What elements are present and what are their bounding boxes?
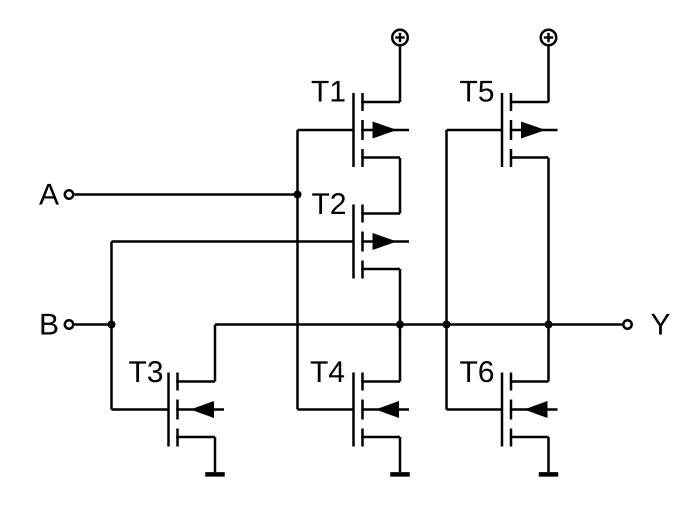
wire: T5 source down to output node — [547, 158, 550, 325]
wire: gate rail to T6 gate — [447, 408, 503, 411]
wire: B rail to T3 gate — [112, 408, 169, 411]
power supply terminal (+) — [541, 30, 557, 46]
label B — [41, 314, 57, 335]
junction: node B — [108, 321, 116, 329]
wire: B rail to T2 gate — [112, 240, 355, 243]
wire: T1 source to T2 drain — [399, 158, 402, 214]
label Y — [651, 314, 670, 335]
transistor T2 (p-type enhancement, bulk arrow pointing right) — [354, 205, 410, 279]
wire: input B to node B — [74, 323, 111, 326]
label T2 — [312, 193, 345, 214]
wire: T4 drain up to node N — [399, 325, 402, 382]
junction: node N at T5/T6 drains — [545, 321, 553, 329]
label A — [39, 184, 59, 205]
ground — [390, 437, 410, 474]
wire: input A to node A — [74, 193, 297, 196]
wire: node B rail (T2 gate down to T3 gate) — [110, 242, 113, 410]
label T1 — [312, 81, 345, 102]
transistor T3 (n-type enhancement, bulk arrow pointing left) — [169, 373, 225, 447]
input terminal A — [65, 190, 73, 198]
power supply terminal (+) — [392, 30, 408, 46]
label T3 — [129, 361, 162, 382]
label T4 — [311, 361, 344, 382]
wire: gate rail to T5 gate — [447, 129, 503, 132]
transistor T6 (n-type enhancement, bulk arrow pointing left) — [502, 373, 558, 447]
wire: T2 source down to node N — [399, 269, 402, 325]
wire: supply to T1 drain — [399, 47, 402, 103]
label T5 — [460, 81, 493, 102]
label T6 — [460, 361, 493, 382]
wire: T6 drain up to output node — [547, 325, 550, 382]
junction: node N at T2/T4 drains — [396, 321, 404, 329]
input terminal B — [65, 320, 73, 328]
transistor T5 (p-type enhancement, bulk arrow pointing right) — [502, 93, 558, 167]
wire: inverter gate rail (T5 gate down to T6 gate) — [445, 130, 448, 410]
ground — [205, 437, 225, 474]
transistor T4 (n-type enhancement, bulk arrow pointing left) — [354, 373, 410, 447]
wire: supply to T5 drain — [547, 47, 550, 103]
junction: node N at inverter gate rail — [443, 321, 451, 329]
wire: T3 drain up to node N — [214, 325, 217, 382]
output terminal Y — [623, 320, 631, 328]
wire: node A rail (T1 gate down to T4 gate) — [296, 130, 299, 410]
ground — [539, 437, 559, 474]
transistor T1 (p-type enhancement, bulk arrow pointing right) — [354, 93, 410, 167]
wire: A rail to T4 gate — [298, 408, 354, 411]
wire: A rail to T1 gate — [298, 129, 354, 132]
junction: node A — [294, 191, 302, 199]
wire: node N horizontal rail to output Y — [215, 323, 623, 326]
